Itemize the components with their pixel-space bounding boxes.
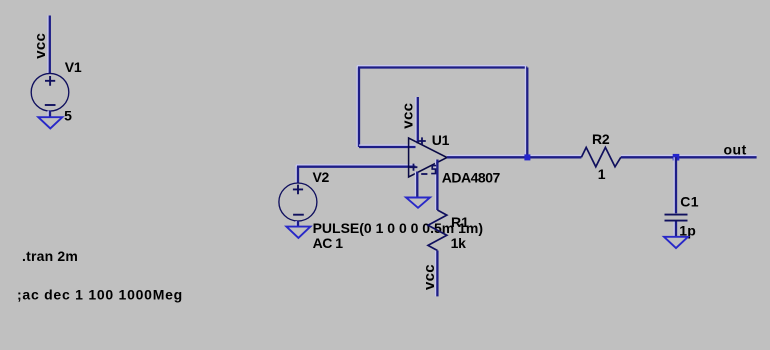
wire V1 to ground (48, 111, 50, 118)
ground under V2 (286, 227, 310, 238)
voltage source V1 (31, 73, 69, 111)
svg-text:U1: U1 (432, 132, 450, 148)
resistor R2 (581, 147, 620, 166)
svg-text:V2: V2 (313, 169, 330, 185)
svg-text:;ac dec 1 100 1000Meg: ;ac dec 1 100 1000Meg (17, 287, 183, 303)
wire C1 to ground (674, 222, 676, 237)
wire R2 to out node (621, 156, 757, 158)
wire feedback to -input (359, 145, 416, 147)
wire V2 to ground (296, 221, 298, 227)
wire vcc stub to op-amp V+ pin (416, 97, 418, 144)
svg-text:.tran 2m: .tran 2m (22, 248, 78, 264)
wire feedback top horizontal (357, 66, 527, 68)
svg-text:1k: 1k (451, 235, 466, 251)
junction feedback/output (524, 154, 530, 160)
svg-text:vcc: vcc (32, 33, 49, 59)
op-amp V- minus mark (421, 173, 427, 175)
ground under V1 (38, 117, 62, 128)
wire op-amp output to R2 (447, 156, 581, 158)
svg-text:R2: R2 (592, 131, 610, 147)
ground under op-amp (406, 198, 430, 208)
svg-text:out: out (724, 142, 747, 158)
wire feedback right vertical to output (526, 66, 528, 158)
wire op-amp V- pin to ground (416, 172, 418, 198)
op-amp +input plus mark (410, 164, 418, 171)
op-amp U1 triangle (409, 138, 447, 177)
wire vcc stub above V1 (48, 16, 50, 74)
svg-text:vcc: vcc (421, 264, 438, 290)
resistor R1 (428, 210, 447, 251)
wire R1 to vcc (436, 251, 438, 297)
wire V2 to op-amp +input (296, 165, 415, 167)
voltage source V2 (279, 183, 317, 221)
wire V2 top stub (296, 165, 298, 183)
wire feedback left vertical (357, 66, 359, 147)
op-amp V+ plus mark (418, 137, 426, 144)
svg-text:1: 1 (598, 166, 606, 182)
svg-text:5: 5 (64, 108, 72, 124)
svg-text:V1: V1 (65, 59, 82, 75)
svg-text:vcc: vcc (399, 103, 416, 129)
svg-text:ADA4807: ADA4807 (442, 169, 501, 185)
wire out node to C1 (674, 157, 676, 213)
junction output/C1 (673, 154, 680, 161)
wire op-amp PD pin down to R1 (436, 160, 438, 211)
svg-text:AC 1: AC 1 (313, 235, 344, 251)
svg-text:R1: R1 (451, 214, 469, 230)
op-amp pin 5 label (431, 165, 436, 175)
ground under C1 (664, 237, 688, 248)
svg-text:C1: C1 (680, 193, 699, 209)
capacitor C1 (665, 215, 688, 221)
